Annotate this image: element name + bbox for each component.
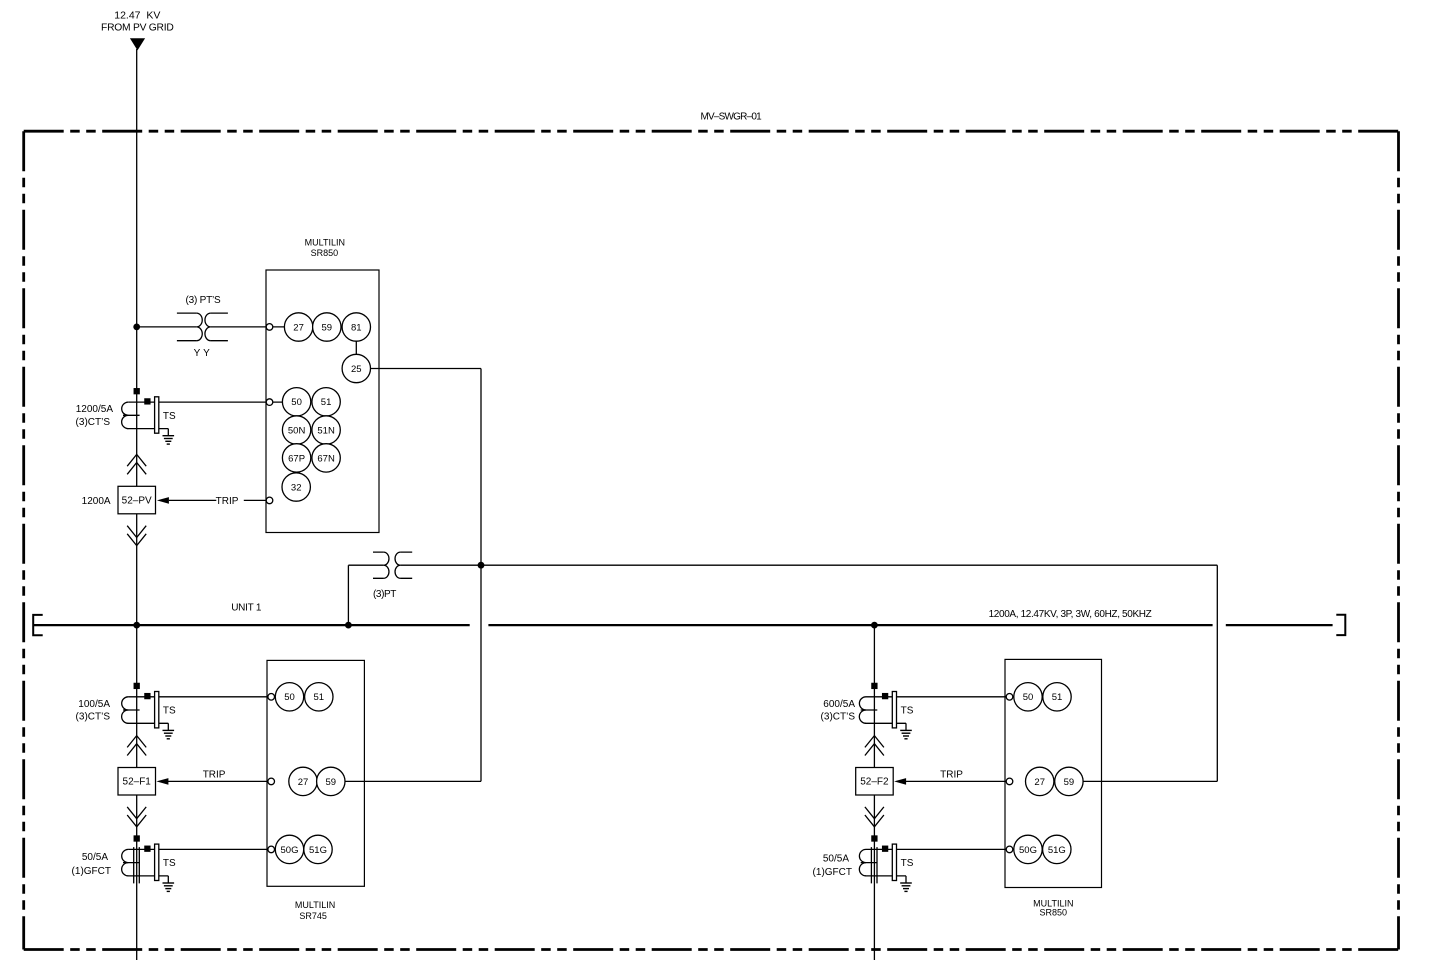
svg-text:51G: 51G xyxy=(1048,845,1066,856)
svg-text:(1)GFCT: (1)GFCT xyxy=(813,867,852,878)
svg-text:TS: TS xyxy=(163,411,176,422)
svg-text:(3)CT’S: (3)CT’S xyxy=(76,417,111,428)
svg-text:100/5A: 100/5A xyxy=(78,699,110,710)
svg-text:(3)CT’S: (3)CT’S xyxy=(821,712,856,723)
svg-text:67P: 67P xyxy=(288,453,305,464)
svg-text:50: 50 xyxy=(291,397,302,408)
svg-text:50G: 50G xyxy=(1019,845,1037,856)
svg-text:TS: TS xyxy=(163,858,176,869)
svg-text:1200A: 1200A xyxy=(82,496,111,507)
svg-text:SR850: SR850 xyxy=(1040,908,1068,918)
svg-text:32: 32 xyxy=(291,482,302,493)
svg-text:FROM PV GRID: FROM PV GRID xyxy=(101,22,174,33)
svg-text:59: 59 xyxy=(322,322,333,333)
svg-text:SR745: SR745 xyxy=(299,911,327,921)
svg-text:TRIP: TRIP xyxy=(203,770,226,781)
svg-text:TRIP: TRIP xyxy=(940,770,963,781)
svg-text:SR850: SR850 xyxy=(311,248,339,258)
svg-text:51N: 51N xyxy=(317,425,335,436)
svg-text:MULTILIN: MULTILIN xyxy=(295,900,335,910)
svg-text:TS: TS xyxy=(901,858,914,869)
svg-text:27: 27 xyxy=(298,777,309,788)
svg-text:1200/5A: 1200/5A xyxy=(76,404,114,415)
svg-text:51: 51 xyxy=(1052,692,1063,703)
svg-text:50: 50 xyxy=(284,692,295,703)
svg-text:50G: 50G xyxy=(281,845,299,856)
svg-text:52–F1: 52–F1 xyxy=(123,777,152,788)
svg-text:59: 59 xyxy=(1064,777,1075,788)
svg-text:1200A, 12.47KV, 3P, 3W, 60HZ,: 1200A, 12.47KV, 3P, 3W, 60HZ, 50KHZ xyxy=(989,609,1152,620)
svg-text:TRIP: TRIP xyxy=(216,496,239,507)
svg-text:25: 25 xyxy=(351,364,362,375)
svg-text:27: 27 xyxy=(1034,777,1045,788)
svg-text:51: 51 xyxy=(321,397,332,408)
svg-text:TS: TS xyxy=(901,706,914,717)
svg-text:52–F2: 52–F2 xyxy=(860,777,889,788)
svg-text:81: 81 xyxy=(351,322,362,333)
svg-text:67N: 67N xyxy=(317,453,335,464)
svg-text:(3) PT’S: (3) PT’S xyxy=(185,295,221,306)
svg-text:(3)CT’S: (3)CT’S xyxy=(76,712,111,723)
svg-text:UNIT 1: UNIT 1 xyxy=(231,603,262,614)
svg-text:12.47 KV: 12.47 KV xyxy=(114,10,160,22)
svg-text:600/5A: 600/5A xyxy=(823,699,855,710)
svg-text:TS: TS xyxy=(163,706,176,717)
svg-text:MULTILIN: MULTILIN xyxy=(305,238,345,248)
svg-text:27: 27 xyxy=(293,322,304,333)
svg-text:(3)PT: (3)PT xyxy=(373,589,396,600)
svg-text:(1)GFCT: (1)GFCT xyxy=(72,866,111,877)
svg-text:59: 59 xyxy=(326,777,337,788)
svg-text:50N: 50N xyxy=(288,425,306,436)
svg-text:MV–SWGR–01: MV–SWGR–01 xyxy=(701,112,763,123)
svg-text:Y Y: Y Y xyxy=(194,348,210,359)
svg-text:50/5A: 50/5A xyxy=(823,854,849,865)
svg-text:52–PV: 52–PV xyxy=(122,496,152,507)
svg-text:51: 51 xyxy=(314,692,325,703)
svg-text:51G: 51G xyxy=(309,845,327,856)
svg-text:50/5A: 50/5A xyxy=(82,852,108,863)
svg-text:50: 50 xyxy=(1023,692,1034,703)
